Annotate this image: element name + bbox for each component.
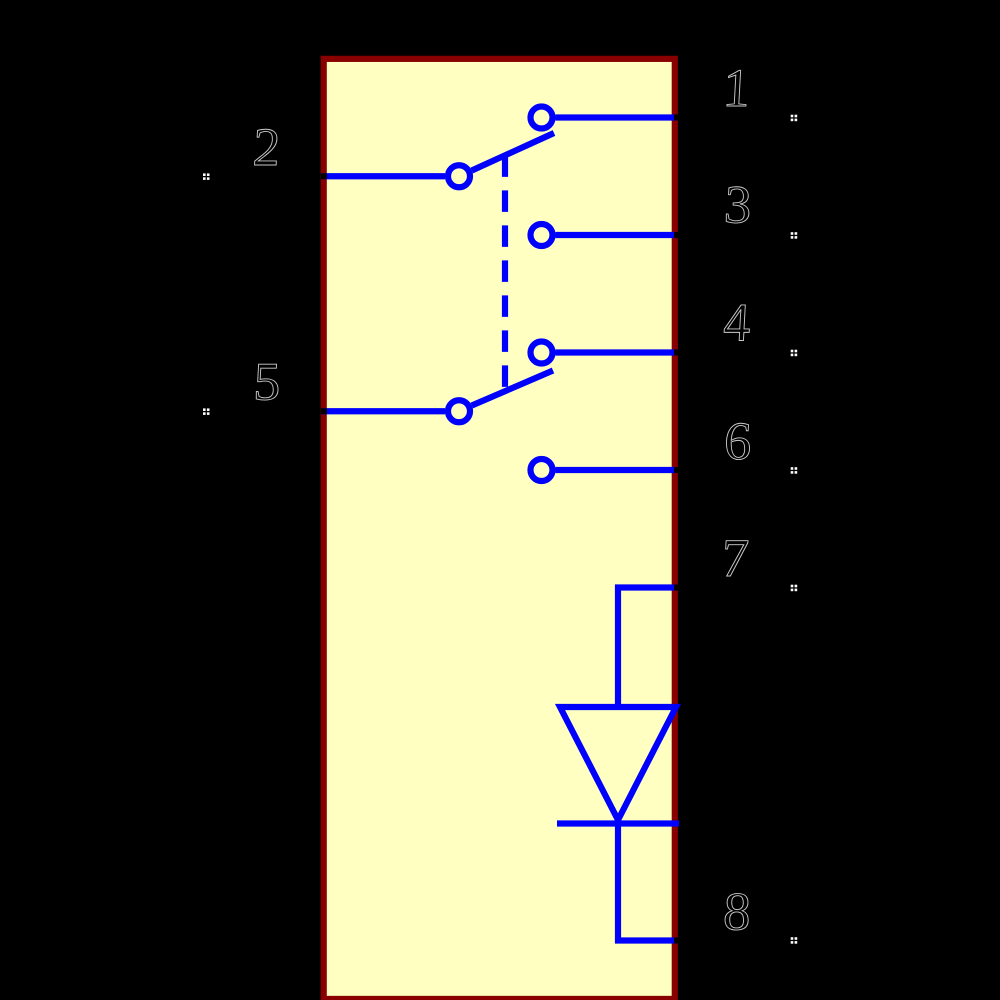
pin 8 wire from coil (618, 822, 677, 941)
pin 1 wire (NC contact 1) (556, 114, 678, 120)
pin 7 grip marker (791, 585, 797, 591)
pin 8 endpoint (674, 938, 680, 944)
pin 3 wire (NO contact 1) (556, 232, 678, 238)
pin 6 grip marker (791, 467, 797, 474)
pin 1 contact circle (531, 107, 553, 129)
pin 1 endpoint (674, 115, 680, 121)
pin 3 contact circle (531, 224, 553, 246)
pin 6 endpoint (674, 467, 680, 473)
pin 2 contact circle (448, 165, 470, 187)
pin 4 wire (NC contact 2) (556, 349, 678, 355)
pin 5 endpoint (321, 408, 327, 414)
switch arm 1 (472, 133, 554, 171)
pin 2 grip marker (203, 173, 210, 180)
pin 8 grip marker (791, 937, 797, 943)
relay body K1 (324, 59, 675, 999)
actuator dashed link (502, 155, 508, 391)
pin 3 endpoint (674, 232, 680, 238)
pin 6 wire (NO contact 2) (556, 467, 678, 473)
pin 7 wire to coil (618, 588, 677, 708)
pin 5 grip marker (203, 408, 210, 415)
pin 2 endpoint (321, 173, 327, 179)
pin 5 contact circle (448, 400, 470, 422)
pin 3 grip marker (791, 232, 797, 239)
pin 6 contact circle (531, 459, 553, 481)
pin 2 wire (common 1) (322, 173, 445, 179)
pin 7 endpoint (674, 585, 680, 591)
pin 4 contact circle (531, 342, 553, 364)
pin 1 grip marker (791, 115, 797, 122)
pin 4 grip marker (791, 350, 797, 357)
coil bar (cathode) (557, 820, 679, 826)
pin 4 endpoint (674, 350, 680, 356)
coil triangle (diode symbol) (560, 707, 676, 820)
switch arm 2 (472, 371, 553, 406)
pin 5 wire (common 2) (322, 408, 445, 414)
